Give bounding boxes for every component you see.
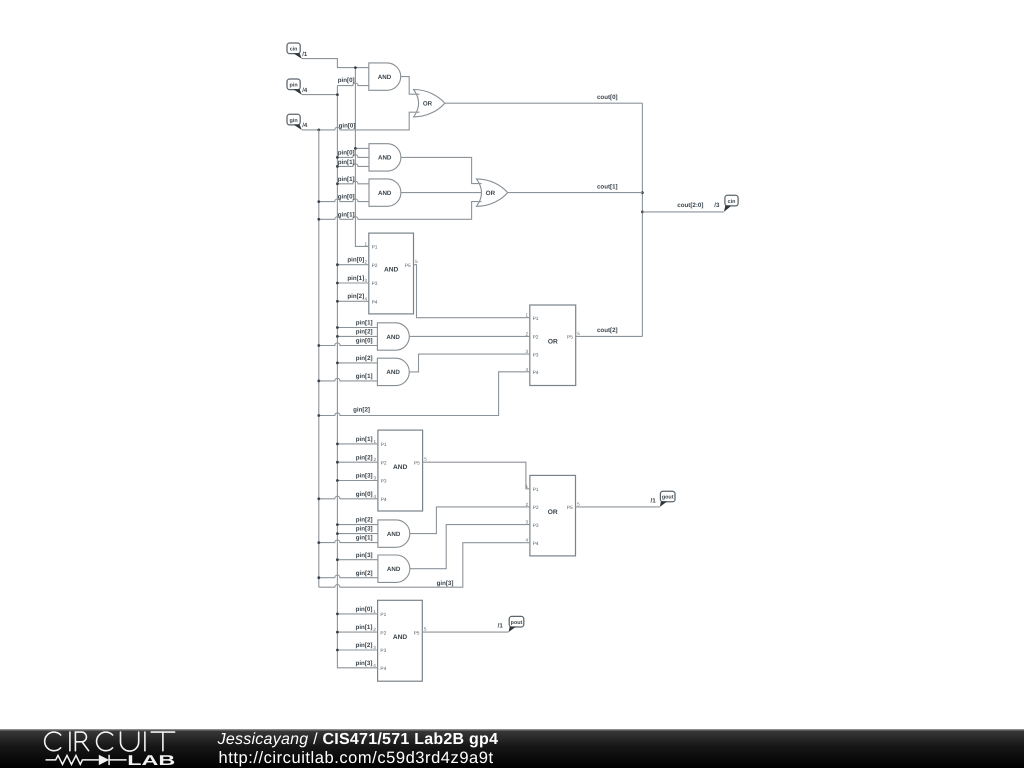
svg-text:cin: cin [728, 199, 736, 205]
wire cout[0] from U2 [445, 102, 643, 104]
svg-text:AND: AND [378, 190, 392, 197]
svg-text:P3: P3 [381, 479, 387, 485]
wire pin flag to pin bus [302, 94, 338, 96]
svg-text:3: 3 [526, 520, 529, 525]
svg-text:AND: AND [378, 74, 392, 81]
svg-text:pin[2]: pin[2] [356, 454, 373, 461]
wire gin flag to U2 input B [302, 112, 420, 130]
net label pin[2] U10 [356, 454, 373, 461]
and-gate U8 (pin[2] gin[1]) [377, 358, 409, 385]
wire U7 output to U9 P2 [409, 335, 530, 337]
footer bar background [0, 729, 1024, 768]
junction pin[1] U6 [336, 282, 339, 285]
net label pin[0] U14 [356, 606, 373, 613]
wire gin[0] to U7 input C [319, 343, 378, 346]
junction pin[1] U3 [336, 165, 339, 168]
svg-text:P4: P4 [533, 370, 539, 376]
junction cout bus at tap [641, 211, 644, 214]
junction pin[0] U6 [336, 263, 339, 266]
svg-text:4: 4 [525, 367, 528, 372]
wire gin[1] to U8 input B [319, 378, 378, 381]
net label gin[0] U4 [338, 194, 355, 201]
wire pin bus vertical [337, 86, 377, 668]
wire pin[0] to U6 P2 [337, 264, 368, 266]
wire cout[2:0] to cin flag [642, 211, 724, 213]
svg-text:gin[0]: gin[0] [356, 338, 373, 345]
output flag cin (cout[2:0]) [724, 195, 738, 212]
svg-text:pin[1]: pin[1] [356, 320, 373, 327]
svg-text:gin[0]: gin[0] [338, 194, 355, 201]
svg-text:cout[2]: cout[2] [597, 327, 618, 334]
svg-text:gin: gin [290, 118, 298, 124]
svg-text:OR: OR [486, 190, 496, 197]
or-gate U5 (cout[1]) [477, 179, 508, 206]
junction pin[3] U10 [336, 479, 339, 482]
wire U10 P5 to U13 P1 [423, 462, 530, 489]
junction cin at U3 tap [354, 147, 357, 150]
junction pin flag [336, 93, 339, 96]
net label pin[1] U7 [356, 320, 373, 327]
svg-text:gin[1]: gin[1] [356, 535, 373, 542]
net label gin[2] U9 [353, 407, 370, 414]
junction cin at U1 input [354, 66, 357, 69]
svg-text:P5: P5 [567, 335, 573, 341]
wire cout[2] from U9 P5 [576, 335, 643, 337]
svg-text:2: 2 [374, 457, 377, 462]
svg-text:pin[2]: pin[2] [347, 293, 364, 300]
svg-text:4: 4 [364, 296, 367, 301]
net label pin[2] U11 [356, 517, 373, 524]
svg-text:P3: P3 [533, 523, 539, 529]
svg-text:5: 5 [577, 501, 580, 506]
svg-text:P2: P2 [380, 630, 386, 636]
output flag gout [660, 491, 675, 507]
svg-text:5: 5 [424, 457, 427, 462]
svg-text:5: 5 [577, 331, 580, 336]
wire pout from U14 P5 [422, 631, 508, 633]
svg-text:2: 2 [364, 260, 367, 265]
junction pin[3] U11 [336, 532, 339, 535]
svg-text:P5: P5 [414, 630, 420, 636]
svg-text:P4: P4 [372, 300, 378, 306]
svg-text:/1: /1 [302, 51, 308, 58]
svg-text:gin[2]: gin[2] [356, 570, 373, 577]
wire cin tap to U3 input A [355, 147, 369, 149]
svg-text:3: 3 [525, 349, 528, 354]
svg-text:P4: P4 [533, 541, 539, 547]
net label pin[3] U14 [356, 660, 373, 667]
wire cin flag to U1 input A [302, 59, 369, 68]
svg-text:gin[3]: gin[3] [437, 580, 454, 587]
wire pin[1] to U10 P1 [337, 443, 378, 445]
net label gin[1] U5 [338, 212, 355, 219]
svg-text:P5: P5 [405, 263, 411, 269]
svg-text:P1: P1 [381, 442, 387, 448]
wire cin vertical to U6 P1 [355, 68, 368, 247]
junction pin[0] U14 [336, 613, 339, 616]
and-gate U4 (pin[1] gin[0]) [369, 179, 401, 206]
net label pin[1] U10 [356, 436, 373, 443]
net label pin[2] U6 [347, 293, 364, 300]
junction gin[1] U8 [317, 380, 320, 383]
net label gin[3] [437, 580, 454, 587]
junction pin[1] U14 [336, 631, 339, 634]
svg-text:/4: /4 [302, 122, 308, 129]
svg-text:AND: AND [384, 267, 399, 274]
wire gin[2] to U12 input B [319, 575, 378, 578]
junction gin[2] U12 [317, 576, 320, 579]
svg-text:AND: AND [387, 566, 401, 573]
svg-text:P1: P1 [372, 245, 378, 251]
svg-text:3: 3 [364, 278, 367, 283]
net label gin[0] U7 [356, 338, 373, 345]
svg-text:AND: AND [393, 464, 408, 471]
svg-text:P3: P3 [372, 281, 378, 287]
logo text CIRCUIT [45, 732, 175, 751]
net label gin[0] U10 [356, 491, 373, 498]
footer title: author and circuit name [217, 731, 499, 748]
wire gout from U13 P5 [576, 506, 660, 508]
junction pin[0] U3 [336, 156, 339, 159]
logo resistor symbol [46, 755, 99, 764]
wire gin[0] to U10 P4 [319, 496, 378, 499]
svg-text:pin[3]: pin[3] [356, 552, 373, 559]
input flag cin /1 [287, 43, 308, 59]
footer url [219, 749, 494, 767]
svg-text:pin[1]: pin[1] [338, 159, 355, 166]
wire U6 P5 to U9 P1 [414, 265, 530, 318]
junction pin[1] U10 [336, 443, 339, 446]
junction pin[2] U8 [336, 362, 339, 365]
junction pin[2] U14 [336, 649, 339, 652]
svg-text:cout[2:0]: cout[2:0] [677, 202, 703, 209]
net label pin[1] U4 [338, 176, 355, 183]
svg-text:pin[0]: pin[0] [356, 606, 373, 613]
svg-text:gin[0]: gin[0] [356, 491, 373, 498]
wire pin[1] to U6 P3 [337, 282, 368, 284]
and-gate U1 (cin AND pin[0]) [369, 63, 401, 90]
and-gate U12 (pin[3] gin[2]) [378, 555, 410, 582]
label /1 gout [651, 497, 657, 504]
svg-text:P2: P2 [533, 505, 539, 511]
junction gin[0] U7 [317, 344, 320, 347]
junction gin[1] U5 [317, 218, 320, 221]
wire U8 output to U9 P3 [409, 354, 530, 372]
svg-text:pin[2]: pin[2] [356, 329, 373, 336]
svg-text:1: 1 [374, 439, 377, 444]
junction pin[2] U10 [336, 461, 339, 464]
svg-text:gin[2]: gin[2] [353, 407, 370, 414]
wire gin[0] to U4 input B [319, 199, 369, 202]
net label pin[1] U14 [356, 624, 373, 631]
net label pin[0] U3 [338, 149, 355, 156]
svg-text:3: 3 [374, 476, 377, 481]
svg-text:P1: P1 [533, 316, 539, 322]
svg-text:4: 4 [373, 663, 376, 668]
svg-text:pin[1]: pin[1] [356, 436, 373, 443]
svg-text:OR: OR [548, 509, 558, 516]
net label pin[0] U6 [347, 257, 364, 264]
svg-text:pin[1]: pin[1] [347, 275, 364, 282]
svg-text:OR: OR [548, 338, 558, 345]
label /3 bus width [714, 202, 720, 209]
net label pin[3] U12 [356, 552, 373, 559]
svg-text:AND: AND [386, 369, 400, 376]
and-gate U3 (cin pin[0] pin[1]) [369, 144, 401, 171]
input flag gin /4 [287, 114, 308, 130]
label /1 pout [498, 623, 504, 630]
or-gate U2 (cout[0]) [414, 90, 445, 117]
net label cout[2] [597, 327, 618, 334]
net label pin[2] U7 [356, 329, 373, 336]
wire gin[2] to U9 P4 [319, 372, 530, 416]
wire pin[2] to U7 input B [337, 335, 377, 337]
svg-text:P3: P3 [533, 352, 539, 358]
svg-text:1: 1 [364, 241, 367, 246]
svg-text:2: 2 [373, 627, 376, 632]
svg-text:LAB: LAB [127, 753, 175, 768]
svg-text:P5: P5 [567, 505, 573, 511]
wire U3 output to U5 input A [401, 157, 482, 183]
wire U1 output to U2 input A [401, 77, 420, 95]
wire pin[2] to U11 input A [337, 524, 378, 526]
and-gate U7 (pin[1] pin[2] gin[0]) [377, 323, 409, 350]
wire pin[3] to U10 P3 [337, 480, 378, 482]
junction cout bus at cout[1] [641, 191, 644, 194]
net label pin[1] U6 [347, 275, 364, 282]
wire gin[1] to U5 input C [319, 202, 482, 220]
wire pin[1] to U4 input A [337, 181, 369, 184]
output flag pout [509, 616, 524, 632]
net label pin[3] U10 [356, 473, 373, 480]
wire pin[0] to U14 P1 [337, 613, 377, 615]
svg-text:pin[2]: pin[2] [356, 642, 373, 649]
wire pin[0] to U1 input B [337, 83, 368, 86]
wire pin[1] to U3 input C [337, 164, 369, 167]
svg-text:P4: P4 [381, 497, 387, 503]
svg-text:Jessicayang / CIS471/571 Lab2B: Jessicayang / CIS471/571 Lab2B gp4 [217, 731, 499, 748]
net label gin[0] top [339, 123, 356, 130]
logo text LAB [127, 753, 175, 768]
svg-text:pin[3]: pin[3] [356, 660, 373, 667]
svg-text:cin: cin [290, 47, 298, 53]
wire pin[2] to U6 P4 [337, 300, 368, 302]
svg-text:pin[0]: pin[0] [338, 77, 355, 84]
junction pin[1] U7 [336, 326, 339, 329]
wire cout bus vertical [641, 103, 643, 336]
wire U4 output to U5 input B [401, 192, 482, 194]
net label pin[1] U3 [338, 159, 355, 166]
junction pin[3] U12 [336, 558, 339, 561]
wire pin[1] to U14 P2 [337, 631, 377, 633]
junction pin[1] U4 [336, 182, 339, 185]
svg-text:2: 2 [526, 502, 529, 507]
junction pin[2] U11 [336, 523, 339, 526]
svg-text:P2: P2 [533, 335, 539, 341]
junction pin[2] U6 [336, 300, 339, 303]
junction gin flag [317, 129, 320, 132]
net label gin[2] U12 [356, 570, 373, 577]
svg-text:AND: AND [386, 334, 400, 341]
net label pin[0] U1 [338, 77, 355, 84]
svg-text:4: 4 [374, 494, 377, 499]
svg-text:/3: /3 [714, 202, 720, 209]
svg-text:AND: AND [387, 531, 401, 538]
svg-text:pout: pout [511, 620, 523, 626]
svg-text:P2: P2 [381, 460, 387, 466]
svg-text:gin[0]: gin[0] [339, 123, 356, 130]
net label gin[1] U8 [356, 373, 373, 380]
svg-text:pin[2]: pin[2] [356, 517, 373, 524]
and-box U14 4-input AND (pout) [373, 600, 427, 681]
svg-text:AND: AND [393, 634, 408, 641]
wire pin[2] to U8 input A [337, 362, 377, 364]
svg-text:pin: pin [290, 83, 298, 89]
svg-text:pin[0]: pin[0] [347, 257, 364, 264]
svg-text:/1: /1 [498, 623, 504, 630]
svg-text:pin[1]: pin[1] [356, 624, 373, 631]
wire gin[1] to U11 input C [319, 540, 378, 543]
net label pin[2] U14 [356, 642, 373, 649]
svg-text:P1: P1 [380, 612, 386, 618]
junction pin[2] U7 [336, 335, 339, 338]
svg-text:P4: P4 [380, 666, 386, 672]
svg-text:5: 5 [424, 627, 427, 632]
svg-text:1: 1 [373, 609, 376, 614]
svg-text:AND: AND [378, 155, 392, 162]
svg-text:P3: P3 [380, 648, 386, 654]
svg-text:pin[3]: pin[3] [356, 473, 373, 480]
and-gate U11 (pin[2] pin[3] gin[1]) [378, 520, 410, 547]
wire pin[2] to U14 P3 [337, 649, 377, 651]
svg-text:OR: OR [423, 101, 433, 108]
svg-text:pin[1]: pin[1] [338, 176, 355, 183]
svg-text:pin[0]: pin[0] [338, 149, 355, 156]
wire pin[1] to U7 input A [337, 327, 377, 329]
svg-text:pin[2]: pin[2] [356, 355, 373, 362]
svg-text:1: 1 [525, 313, 528, 318]
svg-text:2: 2 [525, 331, 528, 336]
wire pin[3] to U11 input B [337, 533, 378, 535]
or-box U13 4-input OR (gout) [526, 475, 581, 556]
net label cout[2:0] [677, 202, 703, 209]
svg-text:cout[1]: cout[1] [597, 183, 618, 190]
net label cout[1] [597, 183, 618, 190]
svg-text:5: 5 [415, 259, 418, 264]
svg-text:4: 4 [526, 538, 529, 543]
svg-text:gin[1]: gin[1] [338, 212, 355, 219]
svg-text:http://circuitlab.com/c59d3rd4: http://circuitlab.com/c59d3rd4z9a9t [219, 749, 494, 767]
junction gin[1] U11 [317, 541, 320, 544]
and-box U6 4-input AND [364, 233, 418, 314]
svg-text:P1: P1 [533, 487, 539, 493]
svg-text:3: 3 [373, 645, 376, 650]
net label pin[3] U11 [356, 526, 373, 533]
or-box U9 4-input OR (cout[2]) [525, 305, 580, 386]
wire pin[0] to U3 input B [337, 155, 369, 158]
svg-text:/4: /4 [302, 87, 308, 94]
wire pin[3] to U12 input A [337, 559, 378, 561]
wire gin[3] to U13 P4 [319, 543, 530, 588]
and-box U10 4-input AND [374, 430, 428, 511]
net label cout[0] [597, 94, 618, 101]
net label pin[2] U8 [356, 355, 373, 362]
wire U12 output to U13 P3 [410, 525, 530, 569]
junction gin[0] U10 [317, 497, 320, 500]
wire gin bus vertical [318, 130, 320, 587]
svg-text:gout: gout [662, 495, 674, 501]
svg-text:gin[1]: gin[1] [356, 373, 373, 380]
wire U11 output to U13 P2 [410, 507, 530, 534]
svg-text:P2: P2 [372, 263, 378, 269]
svg-text:P5: P5 [414, 460, 420, 466]
svg-text:pin[3]: pin[3] [356, 526, 373, 533]
net label gin[1] U11 [356, 535, 373, 542]
svg-text:/1: /1 [651, 497, 657, 504]
logo diode symbol [99, 755, 127, 765]
wire pin[2] to U10 P2 [337, 461, 378, 463]
junction gin[2] U9 [317, 414, 320, 417]
junction gin[0] U4 [317, 200, 320, 203]
svg-text:cout[0]: cout[0] [597, 94, 618, 101]
input flag pin /4 [287, 79, 308, 95]
wire cout[1] from U5 [508, 192, 643, 194]
